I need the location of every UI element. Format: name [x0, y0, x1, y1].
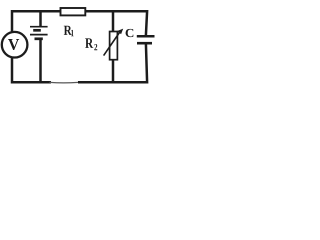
label C — [126, 29, 134, 37]
wire bottom-left (voltmeter to battery branch) — [12, 57, 51, 82]
voltmeter V — [2, 32, 28, 58]
wire R2 to bottom — [112, 60, 115, 83]
wire battery drop from top — [39, 11, 42, 27]
battery — [30, 27, 48, 39]
wire top (left corner to R1) — [12, 11, 61, 32]
label R1 — [64, 26, 74, 37]
wire bottom-right (to capacitor branch) — [78, 44, 147, 83]
label R2 — [85, 38, 97, 50]
wire bottom middle (faint faded segment) — [50, 81, 79, 83]
resistor R1 — [61, 8, 86, 15]
wire battery to bottom — [39, 39, 42, 83]
wire R2 drop from top — [112, 11, 115, 32]
rheostat R2 — [104, 29, 124, 60]
wire top (R1 to top-right corner) — [85, 11, 147, 35]
capacitor C — [137, 36, 155, 43]
